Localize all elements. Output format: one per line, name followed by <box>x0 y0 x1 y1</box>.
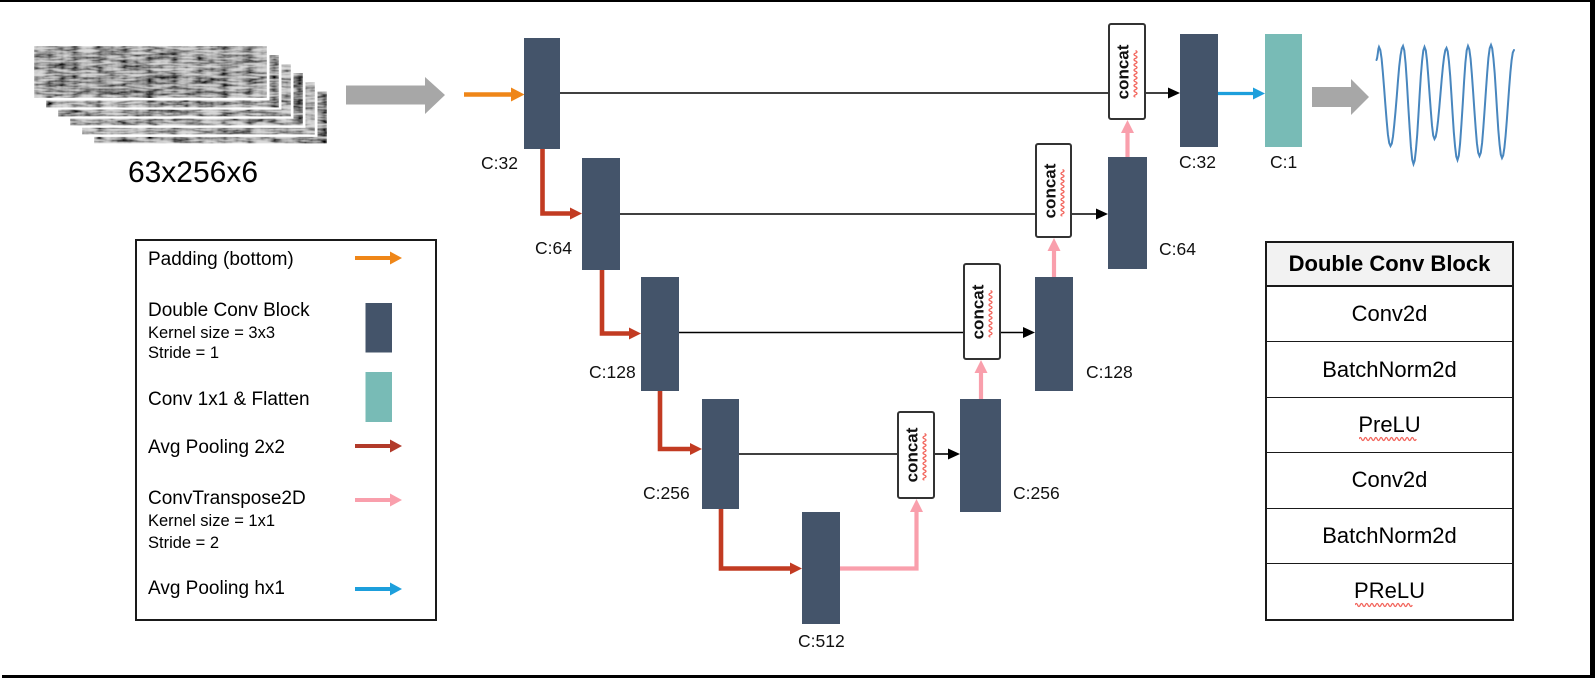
red pool arrow 2 <box>602 270 641 340</box>
legend: conv 1x1 entry <box>148 389 310 411</box>
gray input arrow <box>346 77 445 114</box>
legend: stride 2 <box>148 534 219 553</box>
label C:256 right <box>1013 483 1060 504</box>
skip connection level 3 <box>679 332 963 334</box>
label C:256 left <box>643 483 690 504</box>
black arrow concat1 to block C:32r <box>1146 88 1180 99</box>
black arrow concat4 to block C:256r <box>935 449 960 460</box>
skip connection level 4 <box>739 453 897 455</box>
frame bottom border <box>2 675 1595 678</box>
label C:64 left <box>535 238 572 259</box>
bottleneck block C:512 <box>802 512 840 624</box>
legend orange arrow <box>355 252 402 265</box>
gray output arrow <box>1312 79 1369 115</box>
red pool arrow 4 <box>721 509 802 575</box>
output waveform <box>1377 45 1515 164</box>
black arrow concat2 to block C:64r <box>1072 209 1108 220</box>
pink upconv arrow 4 <box>1121 120 1134 157</box>
conv1x1 block C:1 <box>1265 34 1302 147</box>
legend: convtranspose entry <box>148 488 306 510</box>
pink upconv arrow 2 <box>975 360 988 399</box>
red pool arrow 1 <box>543 149 583 220</box>
legend: avg pooling 2x2 entry <box>148 437 285 459</box>
concat box level C:64 <box>1035 143 1072 238</box>
legend teal swatch <box>366 372 393 422</box>
label C:32 left <box>481 153 518 174</box>
frame right border <box>1590 0 1595 678</box>
encoder block C:32 <box>524 38 560 149</box>
legend: padding entry <box>148 249 294 271</box>
legend: avg pooling hx1 entry <box>148 578 285 600</box>
decoder block C:32 <box>1180 34 1218 147</box>
legend: kernel size 3x3 <box>148 324 275 343</box>
orange padding arrow <box>464 88 525 102</box>
decoder block C:64 <box>1108 157 1147 269</box>
label C:512 <box>798 631 845 652</box>
label C:64 right <box>1159 239 1196 260</box>
concat box level C:256 <box>897 411 935 499</box>
label C:128 right <box>1086 362 1133 383</box>
concat box level C:128 <box>963 263 1001 360</box>
concat box top <box>1108 23 1146 120</box>
legend box <box>135 239 437 621</box>
label C:32 right <box>1179 152 1216 173</box>
decoder block C:256 <box>960 399 1001 512</box>
frame top border <box>0 0 1595 2</box>
double conv table <box>1265 241 1514 621</box>
label C:1 <box>1270 152 1297 173</box>
label C:128 left <box>589 362 636 383</box>
legend: kernel size 1x1 <box>148 512 275 531</box>
encoder block C:64 <box>582 158 620 270</box>
black arrow concat3 to block C:128r <box>1001 327 1035 338</box>
legend: double conv block entry <box>148 300 310 322</box>
decoder block C:128 <box>1035 277 1073 391</box>
pink upconv arrow 1 <box>840 499 923 569</box>
skip connection level 2 <box>620 213 1035 215</box>
legend symbols <box>0 0 470 678</box>
pink upconv arrow 3 <box>1048 238 1061 277</box>
red pool arrow 3 <box>660 391 702 455</box>
legend red arrow <box>355 440 402 453</box>
skip connection level 1 <box>560 92 1108 94</box>
legend pink arrow <box>355 494 402 507</box>
legend dark conv swatch <box>366 303 393 353</box>
legend blue arrow <box>355 583 402 596</box>
blue flatten arrow <box>1218 88 1265 100</box>
input size label 63x256x6 <box>93 156 293 190</box>
legend: stride 1 <box>148 344 219 363</box>
encoder block C:256 <box>702 399 739 509</box>
encoder block C:128 <box>641 277 679 391</box>
input spectrogram stack <box>0 0 340 160</box>
